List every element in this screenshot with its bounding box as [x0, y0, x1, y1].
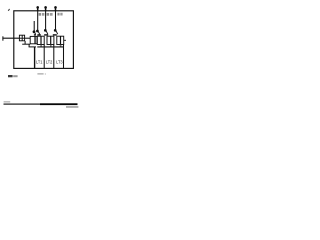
footer caption below rule right: [66, 106, 78, 108]
terminal speck A3: [60, 45, 62, 47]
contactor box A1: [37, 36, 44, 44]
branch wire to relay: [33, 21, 35, 32]
terminal speck A1: [40, 45, 42, 47]
lamp wire 2: [53, 45, 55, 69]
contact bar relay branch: [34, 34, 36, 35]
svg-text:LT1: LT1: [36, 60, 43, 65]
node dot pole3: [54, 29, 57, 32]
supply stub L2 with terminal dot: [45, 6, 47, 11]
rail step wire: [28, 44, 30, 47]
fuse crossed box: [19, 35, 24, 41]
supply stub L1 with terminal dot: [37, 6, 39, 11]
bus wire under contactors: [37, 46, 63, 48]
contact bar pole2: [44, 34, 48, 35]
lamp wire 1: [43, 45, 45, 69]
feeder terminal tick: [2, 36, 4, 40]
switch blade pole3: [56, 31, 58, 35]
contact bar pole3: [53, 34, 57, 35]
lamp wire 3: [63, 45, 65, 69]
node dot pole1: [36, 30, 39, 33]
reference numeral mark top-left: [8, 9, 9, 11]
contactor box A3: [57, 36, 64, 44]
stub box A3 right: [64, 39, 66, 41]
fuse drop wire: [24, 41, 26, 44]
contactor box A2: [47, 36, 54, 44]
svg-text:LT3: LT3: [56, 60, 63, 65]
phase label gray 1: [39, 13, 41, 16]
phase label gray 2: [47, 13, 50, 16]
enclosure box outline: [14, 11, 74, 69]
feeder wire after fuse: [25, 37, 31, 39]
lower rail wire upper: [22, 43, 30, 45]
node dot branch: [33, 30, 36, 33]
pole wire 3: [55, 11, 57, 31]
footer caption above rule: [4, 101, 11, 102]
feeder wire from left: [2, 37, 19, 39]
switch blade branch: [35, 32, 36, 34]
switch blade pole2: [46, 31, 48, 35]
figure caption small blob: [37, 73, 43, 75]
switch blade pole1: [38, 31, 40, 34]
pole wire 1 (from enclosure top): [37, 11, 39, 32]
supply stub L3 with terminal dot: [55, 6, 57, 11]
phase label gray 3: [57, 13, 59, 16]
svg-text:LT2: LT2: [46, 60, 53, 65]
lower rail wire: [29, 46, 36, 48]
terminal speck A2: [50, 45, 52, 47]
node dot pole2: [44, 29, 47, 32]
relay coil box K: [30, 36, 37, 43]
footer rule: [4, 104, 41, 105]
contact bar pole1: [37, 34, 40, 35]
pole wire 2: [45, 11, 47, 31]
relay return drop wire: [34, 47, 36, 68]
figure caption FIG blob: [8, 75, 13, 77]
